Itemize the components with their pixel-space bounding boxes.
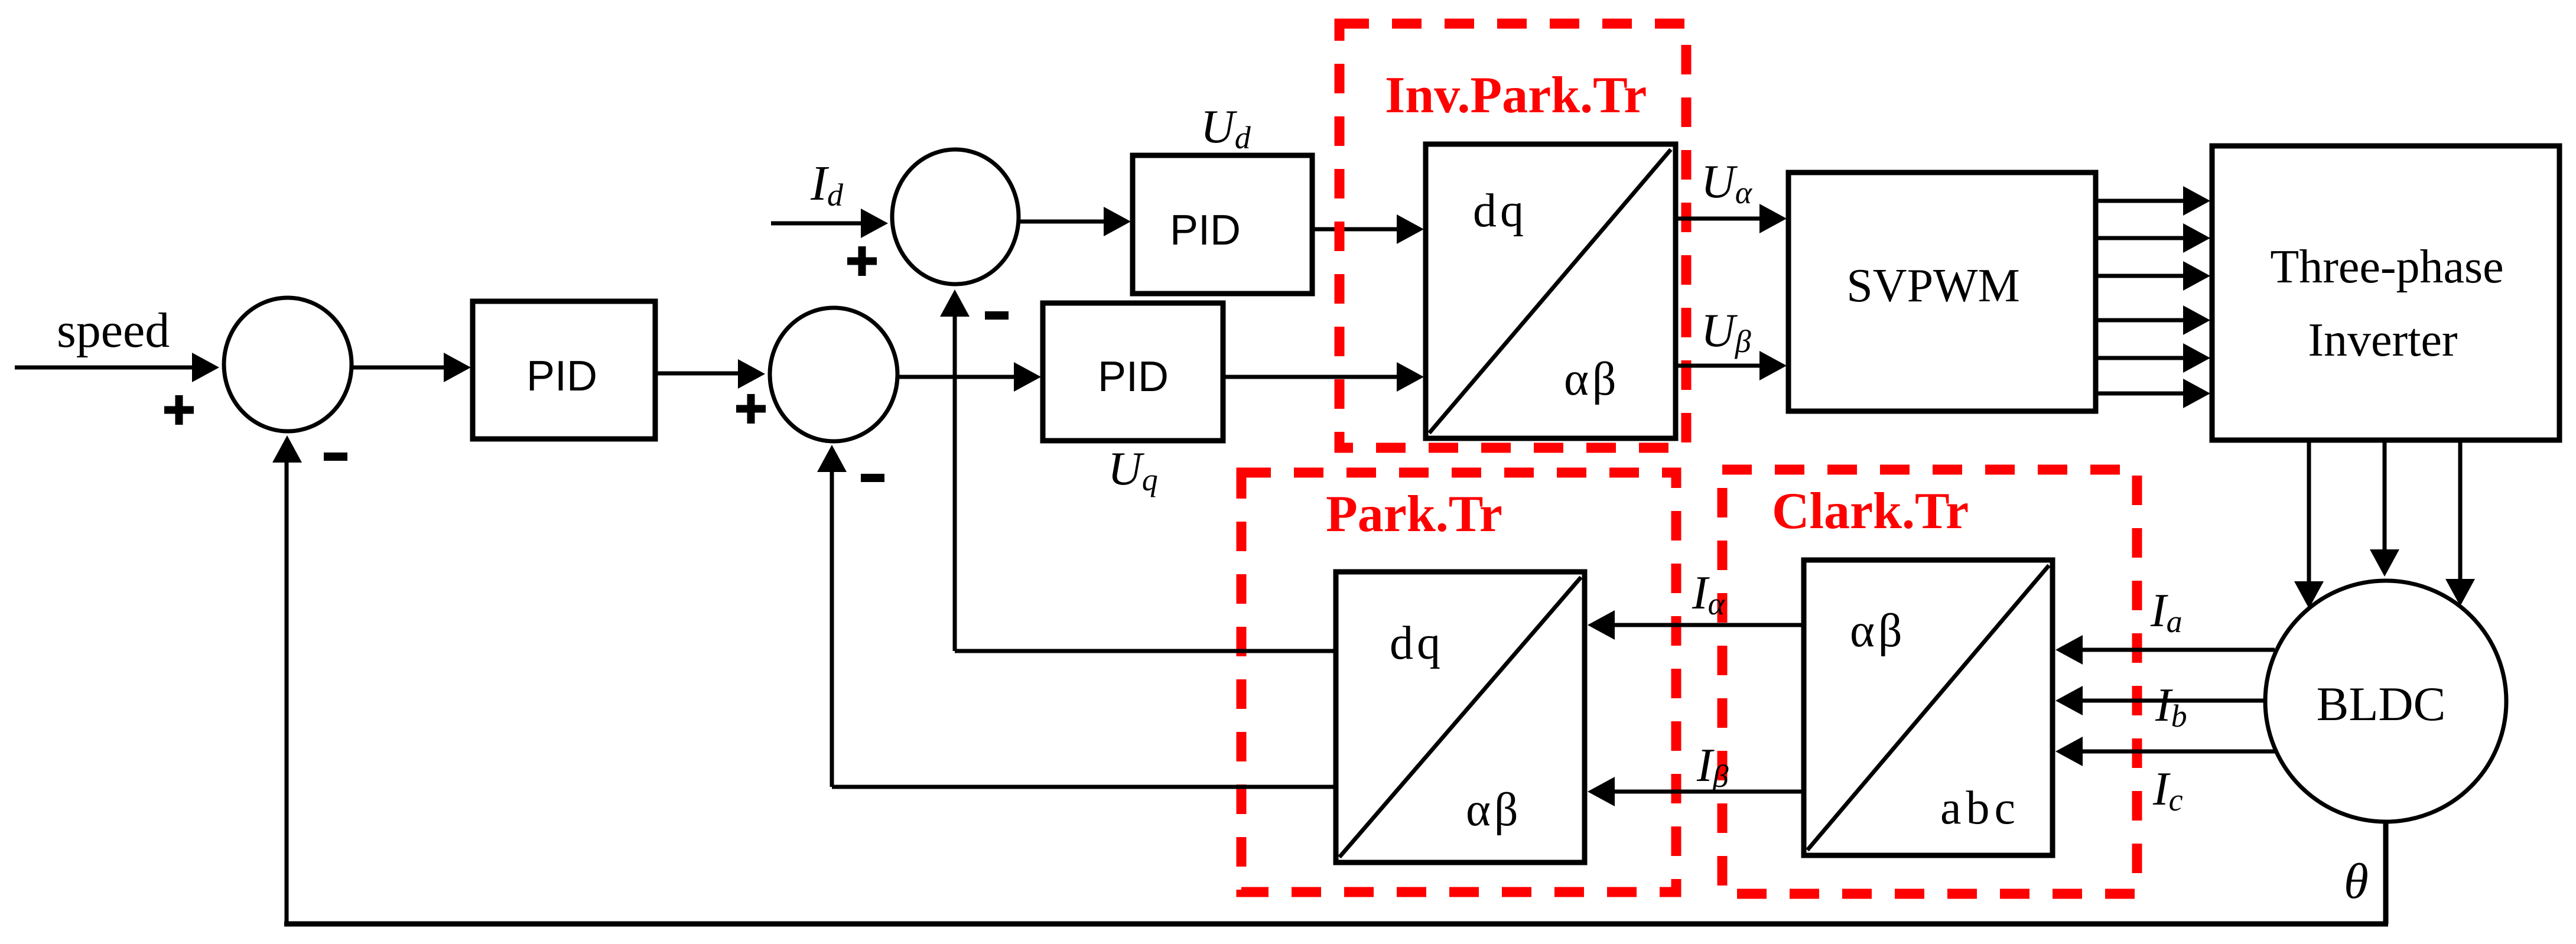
wire U beta to SVPWM [1676,351,1787,380]
wire SVPWM to inverter line 6 [2096,379,2210,408]
wire U alpha to SVPWM [1676,204,1787,233]
wire Clark to Park I alpha [1588,610,1804,640]
wire S3 to PID2 [1020,207,1131,236]
wire BLDC to Clark Ia [2055,635,2275,665]
minus sign below S1 [324,453,347,461]
svg-text:BLDC: BLDC [2317,677,2446,731]
wire SVPWM to inverter line 2 [2096,223,2210,253]
block PID3 q-axis current regulator [1043,303,1223,441]
wire feedback into S2 bottom [817,445,847,787]
wire inverter to BLDC phase c [2445,440,2475,606]
svg-text:Park.Tr: Park.Tr [1326,486,1502,543]
svg-text:speed: speed [57,303,170,358]
block Clark transform U3 [1804,560,2053,855]
plus sign at summing junction S1 [164,395,194,425]
svg-text:αβ: αβ [1850,605,1906,657]
wire S1 to PID1 [353,353,471,382]
wire SVPWM to inverter line 5 [2096,343,2210,373]
block SVPWM [1788,172,2096,411]
summing junction S1 [224,298,352,431]
block inverse Park transform U1 [1426,144,1676,438]
minus sign right of S3 bottom arrow [985,311,1009,320]
wire feedback up into S1 [272,435,302,924]
dashed region Inv.Park.Tr [1339,24,1686,448]
svg-text:PID: PID [1170,207,1241,254]
wire SVPWM to inverter line 3 [2096,261,2210,291]
wire SVPWM to inverter line 1 [2096,186,2210,216]
block PID1 speed regulator [473,301,655,439]
minus sign below S2 [861,474,884,482]
svg-text:αβ: αβ [1466,784,1522,836]
wire Park alpha-beta output to S2 feedback [832,785,1336,789]
svg-text:Inverter: Inverter [2308,314,2457,366]
summing junction S2 [770,308,897,441]
wire BLDC theta down [2383,823,2389,924]
plus sign at summing junction S3 [847,246,877,276]
block three-phase inverter [2212,146,2559,440]
wire PID1 to S2 [655,359,765,389]
wire PID3 to inverse Park alpha-beta input [1223,362,1424,392]
svg-text:Clark.Tr: Clark.Tr [1772,483,1969,540]
plus sign at summing junction S2 [736,394,766,424]
wire S2 to PID3 [899,362,1041,392]
dashed region Park.Tr [1241,473,1676,892]
wire theta feedback bottom [284,922,2388,927]
wire BLDC to Clark Ic [2055,737,2275,766]
wire inverter to BLDC phase b [2370,440,2399,577]
svg-text:PID: PID [526,353,597,400]
svg-text:Three-phase: Three-phase [2270,241,2503,293]
svg-text:dq: dq [1390,617,1444,669]
wire speed input arrow [15,353,219,382]
svg-text:θ: θ [2344,854,2369,909]
block Park transform U2 [1336,572,1585,862]
wire BLDC to Clark Ib [2055,686,2263,715]
block PID2 d-axis current regulator [1133,155,1312,294]
BLDC motor [2265,581,2506,822]
wire Id input arrow [771,209,888,238]
wire Park dq output to S3 feedback [955,649,1336,653]
svg-text:αβ: αβ [1564,353,1620,405]
svg-text:Inv.Park.Tr: Inv.Park.Tr [1385,67,1647,124]
summing junction S3 [892,149,1019,284]
svg-text:PID: PID [1098,353,1169,401]
wire Clark to Park I beta [1588,777,1804,806]
svg-text:SVPWM: SVPWM [1846,260,2019,312]
wire PID2 to inverse Park dq input [1312,214,1424,244]
dashed region Clark.Tr [1722,470,2137,894]
wire inverter to BLDC phase a [2294,440,2324,608]
wire feedback into S3 bottom [940,289,970,651]
wire SVPWM to inverter line 4 [2096,305,2210,335]
svg-text:dq: dq [1473,185,1527,237]
svg-text:abc: abc [1940,782,2020,834]
